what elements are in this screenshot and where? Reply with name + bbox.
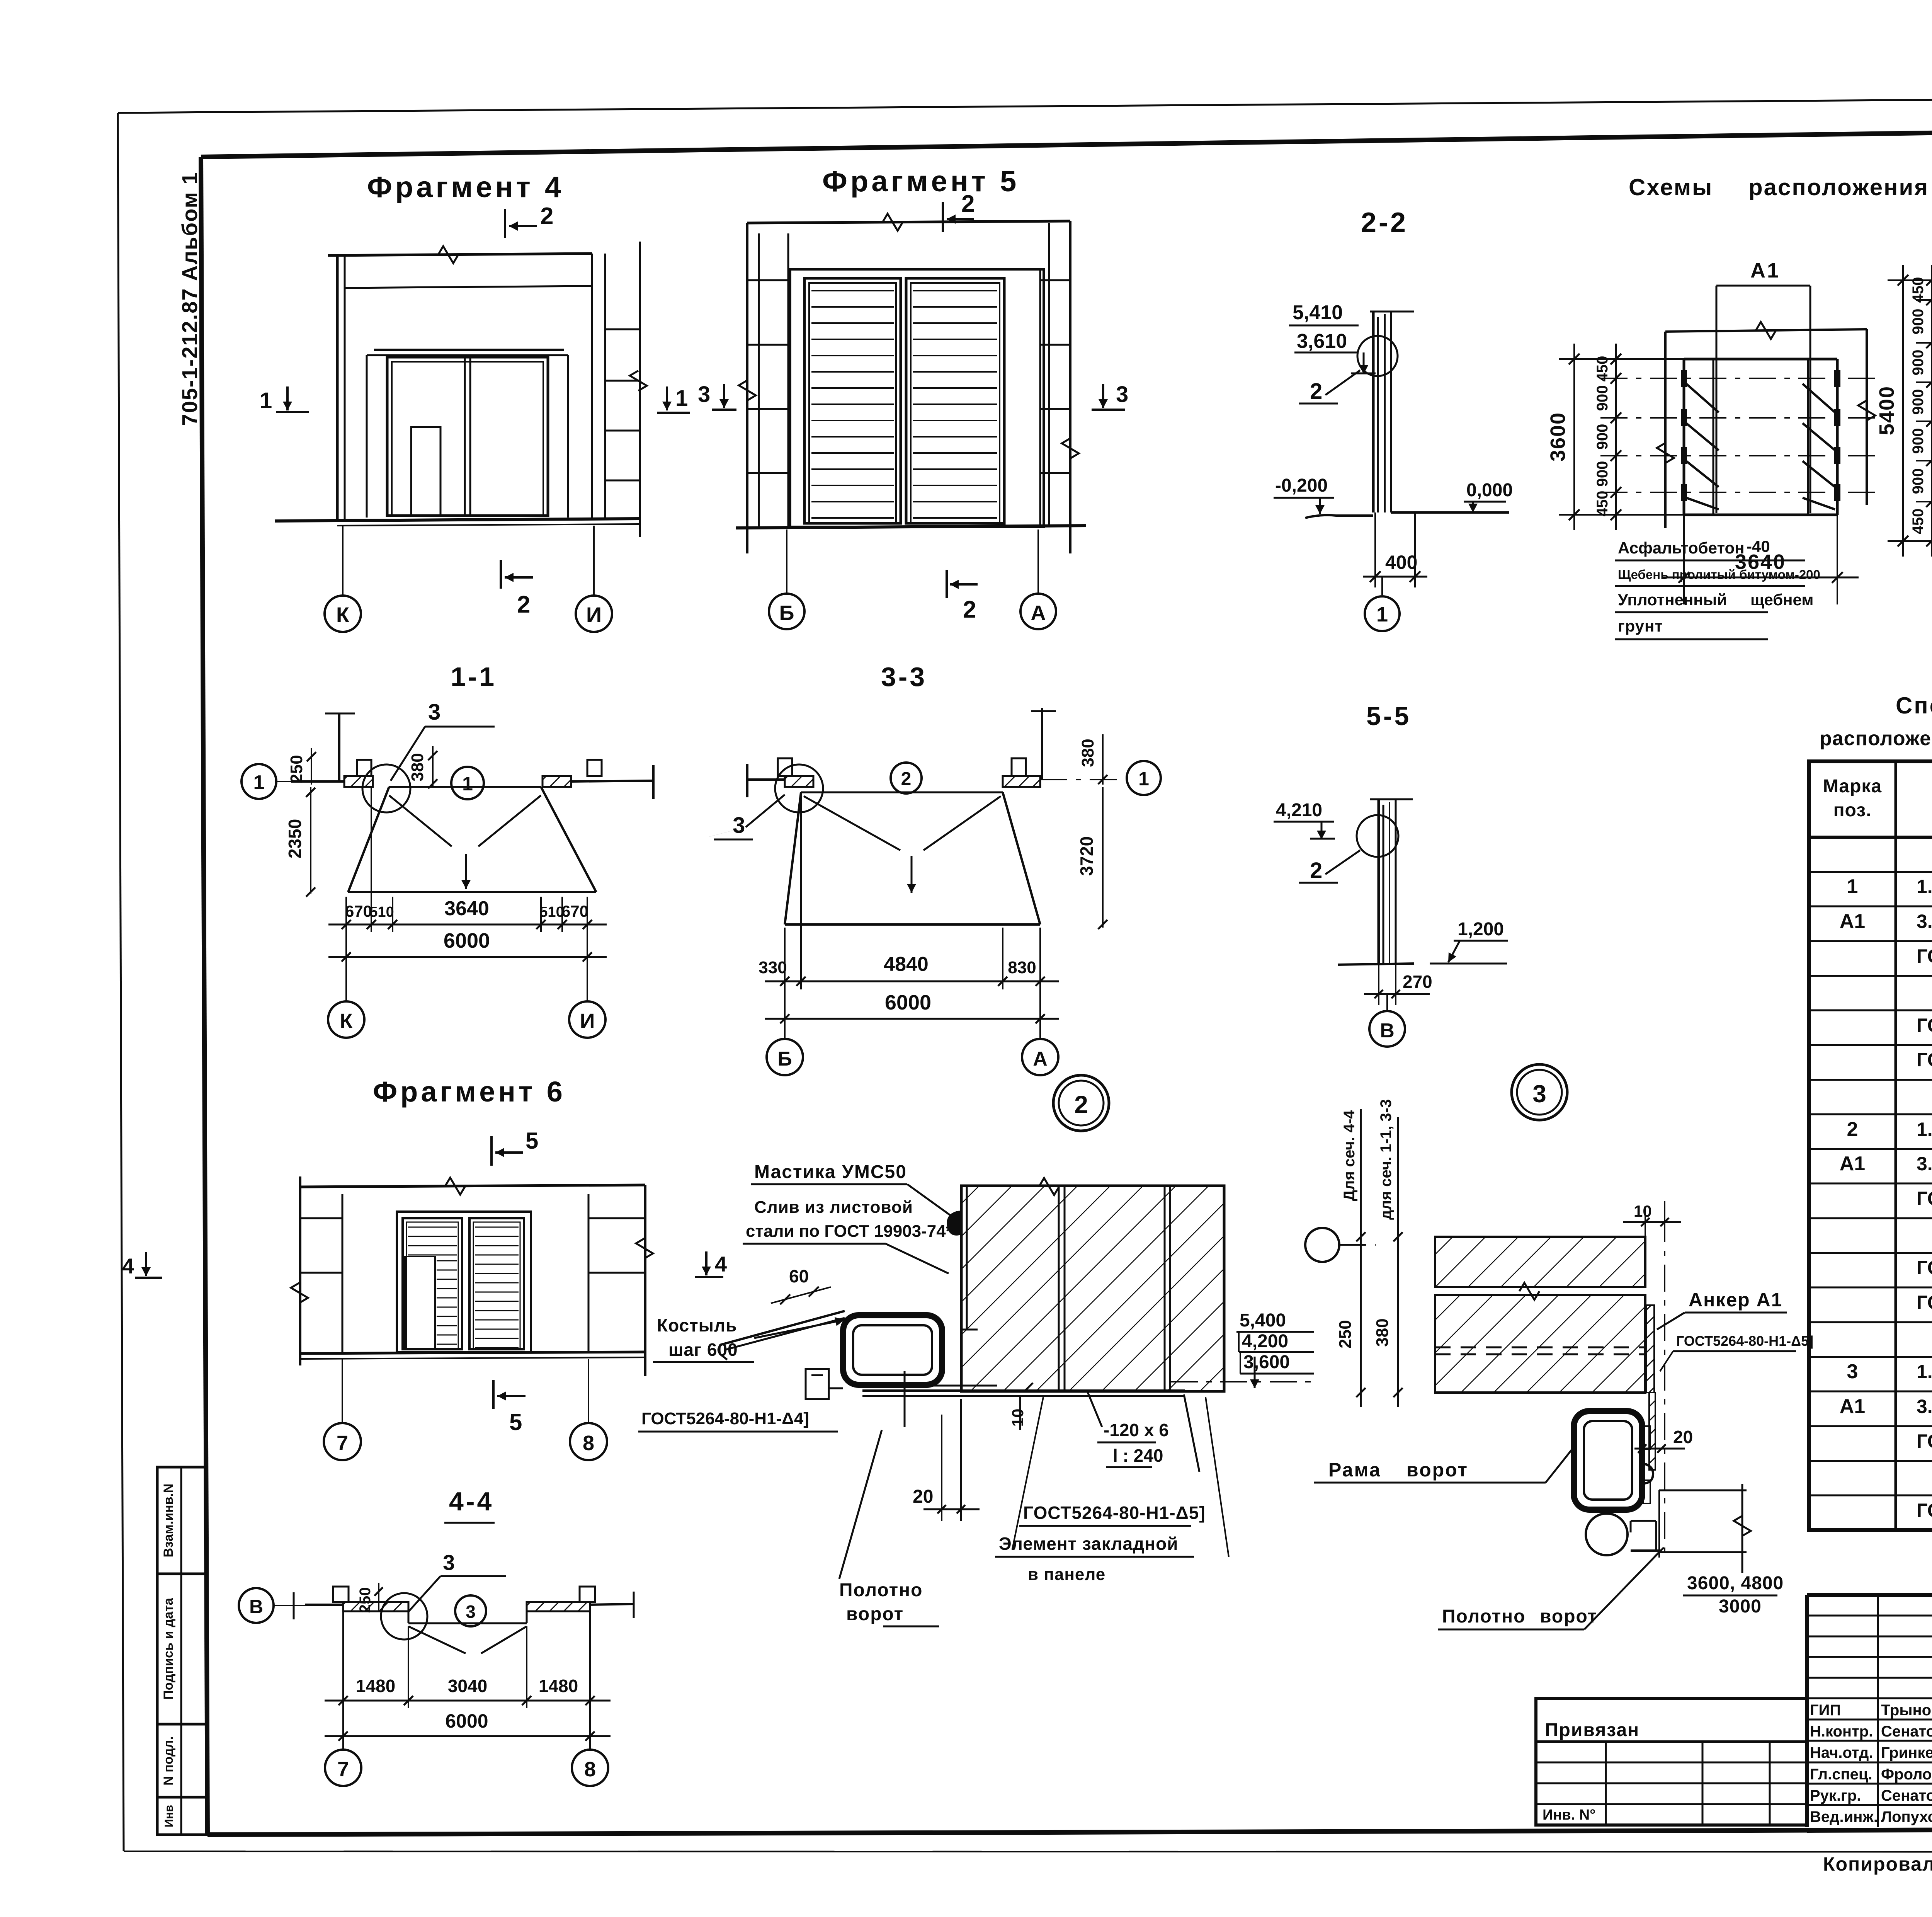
section 1-1 total dim 6000 xyxy=(328,956,607,958)
section 2-2 dim 400 xyxy=(1374,512,1376,587)
svg-text:3.400- 6/76: 3.400- 6/76 xyxy=(1917,911,1932,932)
detail2 wall block with hatching xyxy=(961,1186,1224,1391)
section 4-4 left jamb xyxy=(343,1602,408,1611)
svg-text:1.435.9 - 17. 3 - 4000 - 01: 1.435.9 - 17. 3 - 4000 - 01 xyxy=(1917,1361,1932,1382)
svg-text:1: 1 xyxy=(260,388,272,413)
svg-text:Инв: Инв xyxy=(163,1805,175,1827)
svg-text:Трынов: Трынов xyxy=(1881,1702,1932,1719)
svg-text:Спецификация: Спецификация xyxy=(1896,693,1932,718)
section 2-2 detail circle xyxy=(1357,336,1398,376)
section 4-4 axis 8 xyxy=(589,1708,591,1749)
fragment 5 right gate leaf with louvres xyxy=(906,278,1004,523)
svg-text:3: 3 xyxy=(1116,382,1128,407)
svg-text:3600: 3600 xyxy=(1546,412,1570,461)
svg-text:Б: Б xyxy=(777,1048,792,1070)
svg-text:1: 1 xyxy=(1138,768,1149,790)
svg-text:2: 2 xyxy=(961,191,975,217)
fragment 4 door opening xyxy=(367,354,568,356)
section 4-4 axis circle В xyxy=(239,1588,274,1623)
svg-text:830: 830 xyxy=(1008,958,1036,977)
detail2 dim 20 xyxy=(941,1415,942,1521)
section 4-4 axis circle 3 xyxy=(455,1595,486,1626)
svg-text:4: 4 xyxy=(715,1252,727,1276)
detail2 dashdot floor line xyxy=(1171,1381,1314,1382)
specification table grid xyxy=(1809,761,1932,1530)
fragment 4 ground line xyxy=(275,519,640,521)
svg-text:10: 10 xyxy=(1009,1409,1027,1427)
svg-text:ГОСТ 19903-74*: ГОСТ 19903-74* xyxy=(1917,1015,1932,1036)
svg-text:К: К xyxy=(340,1010,353,1033)
svg-text:А1: А1 xyxy=(1840,1153,1865,1175)
section 1-1 axis K xyxy=(345,932,347,1001)
detail3 roller xyxy=(1586,1514,1628,1555)
fragment 5 column axis А xyxy=(1037,529,1039,593)
svg-text:ГОСТ 19903-74*: ГОСТ 19903-74* xyxy=(1917,1049,1932,1071)
section 3-3 bottom dims 330 4840 830 xyxy=(784,928,786,989)
svg-text:7: 7 xyxy=(337,1758,349,1781)
svg-text:60: 60 xyxy=(789,1266,809,1286)
fragment 5 top section mark 2 xyxy=(942,202,944,232)
svg-text:2350: 2350 xyxy=(285,819,305,858)
svg-text:3. 400 - 6/76: 3. 400 - 6/76 xyxy=(1917,1153,1932,1175)
detail2 dim 60 xyxy=(780,1294,790,1304)
fragment 4 top section mark 2 xyxy=(504,209,506,238)
svg-text:поз.: поз. xyxy=(1833,800,1872,821)
detail3 hinge plates xyxy=(1643,1426,1650,1449)
svg-text:1-1: 1-1 xyxy=(451,662,497,692)
svg-text:ГОСТ 103-76*: ГОСТ 103-76* xyxy=(1917,1430,1932,1452)
svg-text:1: 1 xyxy=(462,773,473,795)
svg-text:2: 2 xyxy=(901,769,912,789)
svg-text:А: А xyxy=(1031,601,1046,625)
fragment 5 opening xyxy=(790,269,1044,527)
svg-text:Фрагмент 4: Фрагмент 4 xyxy=(367,171,564,204)
svg-text:Фрагмент 5: Фрагмент 5 xyxy=(822,165,1019,198)
section 5-5 ground line xyxy=(1338,964,1414,965)
section 1-1 gate leaves open (trapezoid) xyxy=(389,786,541,788)
section 2-2 leader 2 xyxy=(1325,370,1360,395)
svg-text:2: 2 xyxy=(1310,858,1322,883)
svg-text:3,610: 3,610 xyxy=(1297,330,1347,352)
svg-text:5,410: 5,410 xyxy=(1293,301,1343,324)
svg-text:Уплотненный: Уплотненный xyxy=(1618,591,1727,609)
fragment 6 axis 7 xyxy=(342,1359,343,1423)
svg-text:4: 4 xyxy=(122,1254,134,1278)
svg-text:900: 900 xyxy=(1910,350,1927,376)
svg-text:Анкер А1: Анкер А1 xyxy=(1689,1289,1783,1311)
svg-text:3: 3 xyxy=(1847,1360,1858,1383)
svg-text:Схемы: Схемы xyxy=(1629,174,1713,200)
svg-text:900: 900 xyxy=(1594,461,1611,487)
svg-text:380: 380 xyxy=(1078,739,1097,767)
svg-text:3: 3 xyxy=(1532,1080,1546,1108)
svg-text:400: 400 xyxy=(1385,552,1417,573)
svg-text:900: 900 xyxy=(1910,309,1927,335)
svg-text:1480: 1480 xyxy=(539,1676,578,1696)
section 1-1 left wall tee xyxy=(325,713,355,715)
svg-text:А: А xyxy=(1033,1048,1048,1070)
fragment 6 wicket xyxy=(405,1256,435,1349)
svg-text:В: В xyxy=(1380,1020,1395,1042)
svg-text:Для сеч. 4-4: Для сеч. 4-4 xyxy=(1341,1110,1358,1201)
svg-text:2: 2 xyxy=(1847,1118,1858,1141)
section 5-5 axis circle В xyxy=(1386,994,1388,1011)
section 1-1 wall line xyxy=(291,780,344,783)
svg-text:Б: Б xyxy=(779,601,794,625)
section 2-2 post xyxy=(1370,311,1414,313)
fragment 4 door leaves xyxy=(387,357,548,516)
outer sheet border xyxy=(118,95,1932,113)
svg-text:7: 7 xyxy=(337,1432,348,1455)
svg-text:И: И xyxy=(586,603,602,627)
section 2-2 axis circle 1 xyxy=(1381,577,1383,595)
section 1-1 dim 2350 xyxy=(310,787,311,894)
svg-text:250: 250 xyxy=(357,1587,374,1613)
svg-text:1. 435.9 -17. 3 -3000- 02: 1. 435.9 -17. 3 -3000- 02 xyxy=(1917,1119,1932,1140)
svg-text:расположения: расположения xyxy=(1748,174,1929,200)
detail3 anchor bar xyxy=(1646,1305,1654,1393)
svg-text:ГОСТ5264-80-Н1-Δ5]: ГОСТ5264-80-Н1-Δ5] xyxy=(1023,1503,1206,1523)
svg-text:6000: 6000 xyxy=(885,991,931,1014)
svg-text:Инв. N°: Инв. N° xyxy=(1543,1807,1595,1823)
fragment 6 wall outline xyxy=(299,1176,301,1365)
svg-text:ГОСТ5264-80-Н1-Δ5]: ГОСТ5264-80-Н1-Δ5] xyxy=(1676,1333,1813,1349)
svg-text:Нач.отд.: Нач.отд. xyxy=(1810,1744,1873,1761)
svg-text:для сеч. 1-1, 3-3: для сеч. 1-1, 3-3 xyxy=(1378,1099,1395,1220)
svg-text:Слив из листовой: Слив из листовой xyxy=(754,1198,913,1217)
svg-text:20: 20 xyxy=(1673,1427,1693,1447)
svg-text:1,200: 1,200 xyxy=(1458,919,1504,940)
fragment 6 bottom section mark 5 xyxy=(492,1380,495,1409)
svg-text:3: 3 xyxy=(466,1602,476,1622)
svg-text:Лопухова: Лопухова xyxy=(1881,1808,1932,1825)
fragment 4 column axis И xyxy=(593,526,595,595)
fragment 5 left gate leaf with louvres xyxy=(804,278,901,523)
svg-text:Асфальтобетон: Асфальтобетон xyxy=(1618,539,1745,557)
section 2-2 ground lines xyxy=(1305,515,1373,518)
svg-text:1480: 1480 xyxy=(356,1676,395,1696)
section 1-1 axis circle 1 right xyxy=(451,767,484,799)
svg-text:3600, 4800: 3600, 4800 xyxy=(1687,1573,1784,1594)
fragment 6 top section mark 5 xyxy=(490,1136,493,1166)
svg-text:Мастика УМС50: Мастика УМС50 xyxy=(754,1162,907,1182)
fragment 5 section mark 3 right xyxy=(1102,384,1104,408)
svg-text:900: 900 xyxy=(1910,428,1927,454)
section 4-4 total 6000 xyxy=(325,1735,611,1737)
svg-text:А1: А1 xyxy=(1750,259,1780,282)
section 5-5 leader 2 xyxy=(1325,850,1360,874)
fragment 4 wall outline xyxy=(328,254,592,255)
svg-text:И: И xyxy=(580,1010,595,1033)
detail marker circle 3 xyxy=(1512,1064,1567,1120)
svg-text:Копировал: Копировал xyxy=(1823,1853,1932,1875)
svg-text:Полотно: Полотно xyxy=(1442,1606,1526,1627)
svg-text:Полотно: Полотно xyxy=(839,1580,923,1600)
detail marker circle 2 xyxy=(1053,1075,1109,1131)
svg-text:-120 x 6: -120 x 6 xyxy=(1104,1420,1169,1440)
svg-text:2-2: 2-2 xyxy=(1361,207,1408,238)
svg-text:1: 1 xyxy=(1376,603,1388,626)
detail2 flashing (слив) xyxy=(723,1311,845,1344)
svg-text:900: 900 xyxy=(1594,385,1611,411)
svg-text:270: 270 xyxy=(1403,972,1432,992)
fragment 6 section mark 4 right xyxy=(705,1251,707,1275)
section 5-5 dim 270 xyxy=(1378,964,1379,1005)
svg-text:6000: 6000 xyxy=(444,929,490,952)
section 3-3 total dim 6000 xyxy=(765,1018,1059,1020)
svg-text:2: 2 xyxy=(517,591,530,618)
svg-text:Сенаторов: Сенаторов xyxy=(1881,1787,1932,1804)
svg-text:N подл.: N подл. xyxy=(161,1736,176,1785)
svg-text:6000: 6000 xyxy=(445,1710,488,1732)
svg-text:3,600: 3,600 xyxy=(1243,1352,1290,1372)
svg-text:1: 1 xyxy=(1847,875,1858,898)
section 3-3 left jamb xyxy=(785,776,813,787)
svg-text:Рук.гр.: Рук.гр. xyxy=(1810,1787,1861,1804)
section 1-1 bottom dims 670 510 3640 510 670 xyxy=(345,897,347,932)
svg-text:8: 8 xyxy=(584,1758,596,1781)
fragment 4 bottom section mark 2 xyxy=(500,560,502,589)
svg-text:А1: А1 xyxy=(1840,1395,1865,1418)
svg-text:Гринкевич: Гринкевич xyxy=(1881,1744,1932,1761)
section 4-4 dims 1480 3040 1480 xyxy=(342,1611,344,1708)
svg-text:4840: 4840 xyxy=(884,953,929,976)
svg-text:ГОСТ 19903-74*: ГОСТ 19903-74* xyxy=(1917,1257,1932,1279)
svg-text:Фролова: Фролова xyxy=(1881,1766,1932,1783)
section 5-5 detail circle xyxy=(1357,815,1398,857)
svg-text:900: 900 xyxy=(1910,389,1927,415)
svg-text:4-4: 4-4 xyxy=(449,1487,494,1516)
section 3-3 axis circle 1 right xyxy=(1040,779,1121,780)
detail3 gate frame tube xyxy=(1574,1411,1642,1510)
fragment 6 right leaf xyxy=(469,1218,524,1349)
svg-text:Сенаторов: Сенаторов xyxy=(1881,1723,1932,1740)
section 1-1 left jamb xyxy=(344,776,373,787)
svg-text:670: 670 xyxy=(561,902,588,920)
svg-text:в панеле: в панеле xyxy=(1028,1565,1105,1584)
section 3-3 dim 3720 xyxy=(1102,787,1104,928)
section 1-1 axis И xyxy=(587,932,588,1001)
svg-text:900: 900 xyxy=(1594,424,1611,450)
svg-text:2: 2 xyxy=(540,203,553,230)
svg-text:380: 380 xyxy=(1373,1318,1392,1347)
svg-text:1.435.9-17. 2- 2000-01: 1.435.9-17. 2- 2000-01 xyxy=(1917,876,1932,897)
section 1-1 axis circle 1 left xyxy=(276,781,291,782)
section 4-4 threshold xyxy=(408,1622,527,1624)
fragment 5 ground line xyxy=(736,526,1086,528)
detail2 lower rail bits xyxy=(806,1369,829,1399)
svg-text:3640: 3640 xyxy=(1735,550,1786,574)
svg-text:2: 2 xyxy=(1074,1091,1088,1119)
svg-text:1: 1 xyxy=(675,386,688,411)
fragment 6 left leaf xyxy=(403,1218,462,1349)
section 4-4 detail circle xyxy=(381,1593,427,1639)
svg-text:ворот: ворот xyxy=(846,1604,904,1624)
detail3 dashed lines (hidden) xyxy=(1435,1347,1645,1348)
svg-text:Н.контр.: Н.контр. xyxy=(1810,1723,1873,1740)
svg-text:l : 240: l : 240 xyxy=(1113,1445,1163,1466)
svg-text:5-5: 5-5 xyxy=(1366,701,1411,731)
section 4-4 right jamb xyxy=(527,1602,590,1611)
svg-text:Привязан: Привязан xyxy=(1545,1720,1639,1740)
section 3-3 right jamb xyxy=(1003,776,1040,787)
svg-text:4,200: 4,200 xyxy=(1242,1331,1288,1352)
svg-text:705-1-212.87 Альбом 1: 705-1-212.87 Альбом 1 xyxy=(177,172,202,426)
svg-text:3000: 3000 xyxy=(1719,1596,1762,1617)
title block bottom thick line xyxy=(1807,1828,1932,1830)
fragment 5 left guide wall xyxy=(746,223,748,553)
svg-text:Взам.инв.N: Взам.инв.N xyxy=(161,1484,176,1558)
section 3-3 gate leaves (trapezoid) xyxy=(801,792,1003,793)
svg-text:расположения: расположения xyxy=(1820,727,1932,750)
svg-text:510: 510 xyxy=(369,904,394,920)
svg-text:330: 330 xyxy=(759,958,787,977)
svg-text:Костыль: Костыль xyxy=(657,1315,737,1335)
fragment 6 door opening xyxy=(397,1212,531,1352)
svg-text:ГОСТ5264-80-Н1-Δ4]: ГОСТ5264-80-Н1-Δ4] xyxy=(641,1409,809,1428)
section 3-3 axis circle 2 center xyxy=(891,763,922,793)
svg-text:3640: 3640 xyxy=(444,897,489,920)
fragment 4 section mark 1 right xyxy=(666,386,668,410)
section 1-1 detail circle on jamb xyxy=(362,764,410,812)
svg-text:5: 5 xyxy=(526,1128,538,1154)
svg-text:2: 2 xyxy=(963,596,976,623)
svg-text:380: 380 xyxy=(408,753,427,781)
fragment 5 right wall xyxy=(1039,269,1041,527)
detail2 mastic blob xyxy=(947,1211,969,1236)
svg-text:Вед.инж.: Вед.инж. xyxy=(1810,1808,1878,1825)
svg-text:450: 450 xyxy=(1910,277,1927,303)
scheme 1 anchor label A1 bracket xyxy=(1716,286,1718,513)
detail3 wall block xyxy=(1435,1237,1645,1287)
svg-text:щебнем: щебнем xyxy=(1750,591,1813,609)
fragment 5 column axis Б xyxy=(786,529,787,593)
title block outer xyxy=(1807,1593,1932,1597)
section 1-1 right jamb xyxy=(543,776,571,787)
anchor scheme for opening pos.1 (3600x3640) xyxy=(1684,358,1837,361)
svg-text:510: 510 xyxy=(539,904,564,920)
svg-text:ГИП: ГИП xyxy=(1810,1702,1841,1719)
svg-text:250: 250 xyxy=(1336,1320,1355,1348)
detail2 note -120x6 l:240 xyxy=(1087,1391,1102,1427)
svg-text:5: 5 xyxy=(509,1409,522,1435)
inner drawing frame xyxy=(201,124,1932,157)
svg-text:4,210: 4,210 xyxy=(1276,800,1322,821)
detail2 support post below xyxy=(904,1371,906,1427)
section 3-3 axis А xyxy=(1039,989,1041,1039)
svg-text:3040: 3040 xyxy=(448,1676,487,1696)
svg-text:2: 2 xyxy=(1310,379,1322,404)
svg-text:3: 3 xyxy=(733,813,745,838)
svg-text:-0,200: -0,200 xyxy=(1275,475,1328,496)
svg-text:ГОСТ 19903-74*: ГОСТ 19903-74* xyxy=(1917,1292,1932,1313)
fragment 5 bottom section mark 2 xyxy=(946,570,948,598)
detail3 chain lines from captions xyxy=(1360,1109,1362,1407)
svg-text:3. 400 - 6/76: 3. 400 - 6/76 xyxy=(1917,1396,1932,1417)
svg-text:В: В xyxy=(249,1596,263,1617)
left margin stamp boxes xyxy=(157,1467,207,1835)
svg-text:3: 3 xyxy=(443,1550,455,1575)
title block signature grid xyxy=(1877,1595,1879,1827)
svg-text:3: 3 xyxy=(698,382,710,407)
svg-text:8: 8 xyxy=(583,1432,594,1455)
detail3 dim lines right xyxy=(1659,1490,1747,1491)
svg-text:20: 20 xyxy=(913,1486,933,1507)
fragment 4 right panel stack xyxy=(591,254,593,519)
detail2 bottom flat sheet xyxy=(862,1389,1185,1392)
svg-text:Марка: Марка xyxy=(1823,776,1882,797)
detail3 bottom rail bracket xyxy=(1631,1520,1656,1522)
svg-text:ГОСТ 103-76*: ГОСТ 103-76* xyxy=(1917,945,1932,967)
svg-text:Элемент закладной: Элемент закладной xyxy=(999,1534,1178,1554)
svg-text:А1: А1 xyxy=(1840,910,1865,933)
svg-text:ГОСТ 103-76*: ГОСТ 103-76* xyxy=(1917,1188,1932,1209)
detail2 gate frame tube xyxy=(843,1315,942,1385)
svg-text:900: 900 xyxy=(1910,468,1927,494)
fragment 4 wicket door xyxy=(411,427,440,516)
detail3 axis dash-dot xyxy=(1664,1215,1665,1558)
svg-text:670: 670 xyxy=(345,902,372,920)
section 5-5 post xyxy=(1370,798,1413,800)
svg-text:5,400: 5,400 xyxy=(1240,1310,1286,1331)
svg-text:ГОСТ 19903-74*: ГОСТ 19903-74* xyxy=(1917,1500,1932,1521)
svg-text:К: К xyxy=(336,603,350,627)
svg-text:стали по ГОСТ 19903-74*: стали по ГОСТ 19903-74* xyxy=(746,1222,953,1241)
detail2 wall left face channel xyxy=(966,1186,968,1330)
svg-text:грунт: грунт xyxy=(1618,617,1663,635)
svg-text:Гл.спец.: Гл.спец. xyxy=(1810,1766,1872,1783)
svg-text:Щебень пролитый битумом-200: Щебень пролитый битумом-200 xyxy=(1618,567,1820,582)
privyazan mini table xyxy=(1536,1698,1807,1825)
section 3-3 tall right post xyxy=(1041,708,1043,780)
fragment 4 column axis K xyxy=(342,526,344,595)
section 4-4 left wall xyxy=(305,1604,343,1606)
svg-text:250: 250 xyxy=(287,755,306,783)
section 4-4 axis 7 xyxy=(342,1708,344,1749)
svg-text:450: 450 xyxy=(1594,491,1611,517)
svg-text:Рама: Рама xyxy=(1328,1459,1381,1481)
svg-text:Подпись и дата: Подпись и дата xyxy=(161,1597,176,1700)
section 3-3 axis Б xyxy=(784,989,786,1039)
section 3-3 wall line left xyxy=(746,764,748,797)
svg-text:450: 450 xyxy=(1910,509,1927,535)
svg-text:3: 3 xyxy=(428,700,440,725)
svg-text:Фрагмент 6: Фрагмент 6 xyxy=(373,1076,566,1108)
fragment 6 axis 8 xyxy=(588,1359,589,1423)
fragment 6 ground line xyxy=(300,1352,645,1353)
svg-text:ворот: ворот xyxy=(1406,1459,1468,1481)
svg-text:3720: 3720 xyxy=(1077,836,1097,876)
svg-text:5400: 5400 xyxy=(1875,386,1898,435)
svg-text:450: 450 xyxy=(1594,356,1611,382)
svg-text:0,000: 0,000 xyxy=(1466,480,1513,501)
svg-text:3-3: 3-3 xyxy=(881,662,927,692)
svg-text:1: 1 xyxy=(253,771,265,794)
